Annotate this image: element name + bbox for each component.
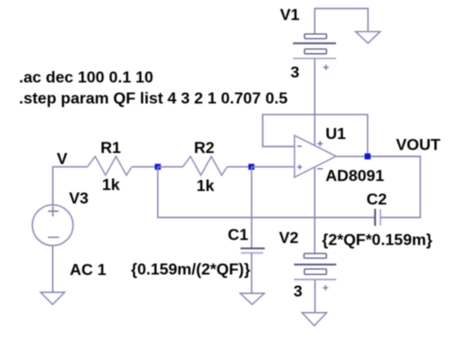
svg-text:3: 3 (294, 283, 303, 300)
R1 label (101, 140, 122, 157)
wire op-amp output to VOUT corner (336, 155, 420, 157)
wire V source top to R1 (53, 167, 88, 206)
R2 value 1k (197, 178, 215, 195)
wire feedback top loop to inverting input (263, 115, 368, 157)
V1 value 3 (291, 65, 300, 82)
AD8091 label (326, 168, 385, 185)
junction node2 (248, 164, 254, 170)
wire C2 right to VOUT line (368, 156, 421, 217)
wire node2 to op-amp noninverting input (251, 166, 294, 168)
svg-text:AD8091: AD8091 (326, 168, 385, 185)
wire V2 bottom to ground (314, 280, 316, 313)
wire feedback node1 down and right to C2 (158, 167, 375, 218)
wire V source bottom to ground (52, 245, 54, 292)
C2 label (367, 192, 388, 209)
op-amp U1 (295, 135, 337, 177)
svg-text:V2: V2 (279, 230, 299, 247)
wire node2 down to C1 (251, 167, 253, 248)
V2 value 3 (294, 283, 303, 300)
R1 value 1k (102, 177, 120, 194)
VOUT label (396, 137, 441, 154)
svg-text:C1: C1 (228, 227, 249, 244)
wire op-amp negative supply down to V2 (314, 167, 316, 254)
wire R1 to node1 (132, 166, 158, 168)
svg-text:R2: R2 (194, 140, 215, 157)
svg-text:3: 3 (291, 65, 300, 82)
ground top right (356, 32, 381, 44)
svg-text:1k: 1k (102, 177, 120, 194)
U1 label (326, 126, 347, 143)
AC 1 value label (70, 262, 107, 279)
svg-text:.step param QF list 4 3 2 1 0.: .step param QF list 4 3 2 1 0.707 0.5 (19, 91, 288, 108)
svg-text:R1: R1 (101, 140, 122, 157)
resistor R2 (183, 156, 227, 175)
C2 value (322, 232, 432, 249)
V1 label (280, 7, 300, 24)
svg-text:V3: V3 (69, 191, 89, 208)
wire V1 top to ground (315, 9, 368, 35)
battery V1 (293, 34, 336, 70)
svg-text:{0.159m/(2*QF)}: {0.159m/(2*QF)} (131, 262, 250, 279)
C1 label (228, 227, 249, 244)
svg-text:AC 1: AC 1 (70, 262, 107, 279)
svg-text:V1: V1 (280, 7, 300, 24)
battery V2 (294, 254, 336, 291)
ground V3 (41, 292, 65, 304)
spice directive .step (19, 91, 288, 108)
junction node1 (155, 164, 161, 170)
svg-text:.ac dec 100 0.1 10: .ac dec 100 0.1 10 (19, 70, 153, 87)
wire C1 to ground (251, 253, 253, 293)
spice directive .ac (19, 70, 153, 87)
wire R2 to node2 (227, 166, 251, 168)
ground C1 (240, 293, 264, 304)
svg-text:C2: C2 (367, 192, 388, 209)
wire node1 to R2 (158, 166, 183, 168)
V2 label (279, 230, 299, 247)
resistor R1 (88, 156, 132, 175)
svg-text:V: V (57, 151, 68, 168)
node V label (57, 151, 68, 168)
svg-text:VOUT: VOUT (396, 137, 441, 154)
junction output node (365, 153, 371, 159)
C1 value (131, 262, 250, 279)
V3 label (69, 191, 89, 208)
svg-text:1k: 1k (197, 178, 215, 195)
wire V1 positive supply down to op-amp (314, 58, 316, 145)
ground V2 (302, 313, 327, 326)
capacitor C1 (241, 248, 265, 253)
svg-text:{2*QF*0.159m}: {2*QF*0.159m} (322, 232, 432, 249)
voltage source V3 (32, 205, 73, 246)
R2 label (194, 140, 215, 157)
capacitor C2 (375, 209, 380, 226)
svg-text:U1: U1 (326, 126, 347, 143)
